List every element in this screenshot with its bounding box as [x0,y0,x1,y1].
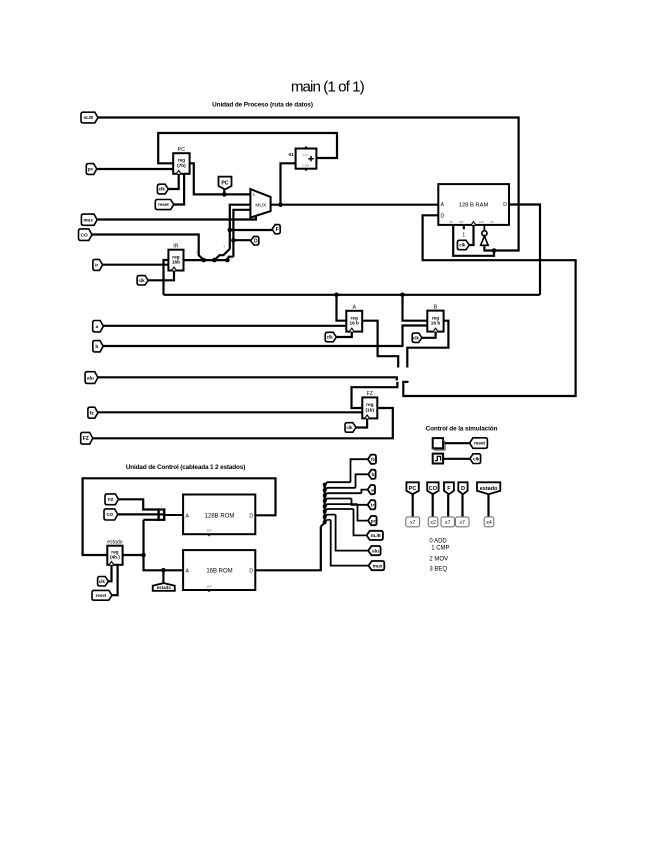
svg-text:3 BEQ: 3 BEQ [429,566,447,572]
svg-text:A: A [352,305,356,311]
svg-text:a: a [96,325,99,330]
svg-text:mux: mux [373,564,383,569]
svg-text:clk: clk [159,187,166,192]
svg-text:8: 8 [327,517,329,521]
svg-text:b: b [372,472,375,478]
svg-text:clk: clk [346,425,353,430]
svg-text:x7: x7 [410,520,416,526]
svg-text:16 b: 16 b [350,321,360,326]
svg-text:sel: sel [207,584,212,588]
svg-text:reset: reset [96,593,107,598]
svg-text:16b: 16b [172,260,180,265]
svg-text:FZ: FZ [367,391,373,397]
svg-text:CO: CO [107,512,114,517]
svg-text:D: D [249,568,253,574]
svg-text:F: F [276,227,279,233]
svg-text:x7: x7 [445,520,451,526]
svg-text:ir: ir [371,503,374,509]
svg-text:MUX: MUX [255,202,267,208]
svg-text:PC: PC [409,486,417,492]
svg-text:nL/E: nL/E [371,533,382,539]
svg-text:0: 0 [253,193,255,197]
svg-text:sel: sel [207,529,212,533]
svg-text:(1b): (1b) [366,407,375,412]
svg-text:1: 1 [462,233,465,239]
svg-text:D: D [461,486,465,492]
svg-text:c in: c in [303,153,308,157]
svg-text:clk: clk [473,456,480,461]
svg-text:FZ: FZ [83,436,89,442]
svg-text:clk: clk [327,335,334,340]
svg-text:(4b.): (4b.) [110,555,120,560]
svg-text:Unidad de Control (cableada 1: Unidad de Control (cableada 1 2 estados) [126,464,245,471]
svg-text:out: out [479,220,484,224]
svg-text:D: D [249,513,253,519]
svg-text:pc: pc [371,519,377,524]
svg-text:0: 0 [231,256,233,260]
svg-text:c out: c out [302,163,309,167]
svg-text:sel: sel [459,220,464,224]
svg-text:estado: estado [157,585,171,590]
svg-text:CO: CO [429,486,438,492]
svg-text:B: B [434,304,438,310]
svg-text:clk: clk [459,243,466,248]
svg-text:fz: fz [371,457,376,463]
svg-text:clk: clk [99,579,106,584]
svg-text:1 CMP: 1 CMP [431,545,449,551]
svg-text:PC: PC [178,147,185,153]
svg-text:fz: fz [90,410,95,416]
svg-text:1: 1 [161,504,163,508]
svg-text:D: D [503,202,507,208]
svg-text:128 B RAM: 128 B RAM [459,202,489,208]
svg-text:alu: alu [87,375,94,381]
svg-text:ir: ir [95,263,98,269]
svg-text:FZ: FZ [108,497,114,502]
svg-text:a: a [371,488,374,493]
svg-text:pc: pc [88,168,94,173]
svg-text:nL/E: nL/E [84,115,94,120]
svg-text:2: 2 [196,251,198,255]
svg-text:16B ROM: 16B ROM [206,568,232,574]
svg-text:PC: PC [221,181,228,187]
svg-text:2 MOV: 2 MOV [429,556,448,562]
svg-text:main (1 of 1): main (1 of 1) [291,78,365,95]
svg-text:estado: estado [107,540,123,546]
svg-text:reset: reset [474,441,485,446]
svg-text:D: D [254,239,258,245]
svg-text:Unidad de Proceso (ruta de dat: Unidad de Proceso (ruta de datos) [212,101,313,108]
svg-text:mux: mux [83,217,93,222]
svg-text:reset: reset [158,202,169,207]
svg-text:2: 2 [224,245,226,249]
svg-text:clk: clk [413,335,420,340]
svg-text:alu: alu [372,548,379,554]
svg-text:Control de la simulación: Control de la simulación [426,425,498,432]
svg-text:IR: IR [173,244,178,250]
svg-text:x4: x4 [486,520,492,526]
svg-text:(7b): (7b) [177,163,186,168]
svg-text:16 b: 16 b [431,321,441,326]
svg-text:x2: x2 [430,520,436,526]
svg-text:clk: clk [138,278,145,283]
svg-text:CO: CO [81,232,88,238]
svg-text:b: b [95,344,98,350]
svg-text:x7: x7 [459,520,465,526]
svg-text:0 ADD: 0 ADD [429,538,447,544]
svg-text:01: 01 [289,152,295,158]
svg-text:D: D [440,213,444,219]
svg-text:estado: estado [480,486,498,492]
svg-text:128B ROM: 128B ROM [205,513,235,519]
